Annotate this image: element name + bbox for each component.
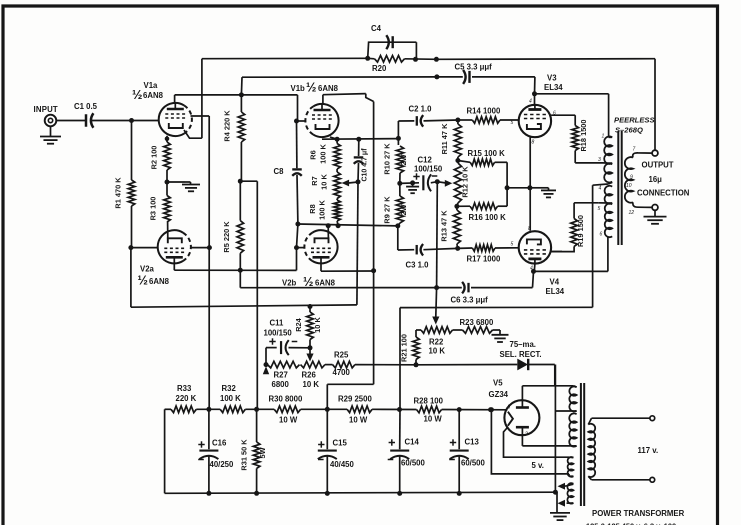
svg-text:1: 1 — [602, 134, 605, 140]
svg-text:6AN8: 6AN8 — [143, 91, 164, 100]
svg-text:5: 5 — [511, 242, 514, 248]
svg-text:9: 9 — [630, 175, 633, 181]
svg-text:4: 4 — [599, 186, 602, 192]
svg-text:4700: 4700 — [333, 368, 351, 377]
svg-text:100/150: 100/150 — [264, 329, 293, 338]
svg-text:6AN8: 6AN8 — [318, 84, 339, 93]
svg-text:R6: R6 — [309, 150, 318, 159]
svg-text:10 K: 10 K — [429, 347, 446, 356]
svg-text:CONNECTION: CONNECTION — [637, 189, 690, 198]
svg-text:R28 100: R28 100 — [414, 397, 444, 406]
svg-text:R15 100 K: R15 100 K — [468, 149, 506, 158]
svg-text:75–ma.: 75–ma. — [510, 340, 536, 349]
svg-text:R1 470 K: R1 470 K — [114, 177, 123, 209]
svg-text:C16: C16 — [212, 439, 227, 448]
svg-text:R7: R7 — [310, 176, 319, 185]
svg-text:5: 5 — [598, 206, 601, 212]
svg-text:10 K: 10 K — [320, 174, 329, 190]
svg-text:R16 100 K: R16 100 K — [469, 213, 507, 222]
svg-text:R8: R8 — [308, 204, 317, 213]
svg-text:R29 2500: R29 2500 — [338, 395, 372, 404]
svg-text:R17 1000: R17 1000 — [467, 255, 501, 264]
svg-text:10 K: 10 K — [313, 317, 322, 333]
svg-text:R20: R20 — [372, 64, 387, 73]
svg-text:½: ½ — [132, 88, 142, 102]
svg-text:R18 1500: R18 1500 — [579, 119, 588, 151]
svg-text:R14 1000: R14 1000 — [467, 107, 501, 116]
svg-text:10 W: 10 W — [279, 416, 298, 425]
svg-text:C13: C13 — [465, 438, 480, 447]
svg-text:C14: C14 — [405, 438, 420, 447]
svg-text:5W: 5W — [258, 447, 267, 458]
svg-text:2W: 2W — [399, 204, 408, 215]
svg-text:V1a: V1a — [144, 81, 159, 90]
svg-text:R31 50 K: R31 50 K — [240, 439, 249, 471]
svg-text:V3: V3 — [547, 74, 557, 83]
svg-text:R10 27 K: R10 27 K — [383, 143, 392, 175]
svg-text:100 K: 100 K — [220, 394, 241, 403]
svg-text:3: 3 — [598, 157, 601, 163]
svg-text:40/450: 40/450 — [330, 460, 355, 469]
svg-text:PEERLESS: PEERLESS — [614, 116, 655, 125]
svg-text:C4: C4 — [371, 24, 382, 33]
svg-text:8: 8 — [532, 140, 535, 146]
svg-text:R9 27 K: R9 27 K — [383, 196, 392, 224]
svg-text:R4 220 K: R4 220 K — [223, 110, 232, 142]
svg-text:½: ½ — [303, 275, 313, 289]
svg-text:8: 8 — [528, 226, 531, 232]
svg-text:2: 2 — [524, 432, 528, 438]
svg-text:R2 100: R2 100 — [150, 146, 159, 170]
svg-text:100 K: 100 K — [319, 143, 328, 163]
svg-text:4: 4 — [530, 266, 533, 272]
svg-text:60/500: 60/500 — [461, 459, 486, 468]
svg-text:R13 47 K: R13 47 K — [440, 210, 449, 242]
svg-text:10 W: 10 W — [349, 416, 368, 425]
svg-text:C5 3.3 μμf: C5 3.3 μμf — [455, 63, 493, 72]
svg-text:10 K: 10 K — [303, 380, 320, 389]
svg-text:6AN8: 6AN8 — [149, 277, 170, 286]
svg-text:125-0-125 450 v. 6.3 v. 1: 125-0-125 450 v. 6.3 v. 100 — [586, 522, 676, 525]
svg-text:R3 100: R3 100 — [149, 197, 158, 221]
svg-text:V2a: V2a — [140, 265, 155, 274]
svg-text:7: 7 — [633, 147, 636, 153]
svg-text:16μ: 16μ — [649, 175, 663, 184]
svg-text:C8: C8 — [274, 167, 285, 176]
svg-text:C11: C11 — [270, 319, 285, 328]
svg-text:EL34: EL34 — [544, 83, 563, 92]
svg-text:100/150: 100/150 — [414, 165, 443, 174]
svg-text:SEL. RECT.: SEL. RECT. — [500, 350, 542, 359]
svg-text:6800: 6800 — [272, 380, 290, 389]
svg-text:R24: R24 — [294, 317, 303, 331]
svg-text:R27: R27 — [274, 371, 288, 380]
svg-text:½: ½ — [138, 274, 148, 288]
svg-text:C12: C12 — [418, 156, 433, 165]
svg-text:10 W: 10 W — [424, 415, 443, 424]
svg-text:C6 3.3 μμf: C6 3.3 μμf — [451, 296, 489, 305]
svg-text:R11 47 K: R11 47 K — [440, 123, 449, 154]
svg-text:C2 1.0: C2 1.0 — [409, 105, 433, 114]
svg-text:½: ½ — [306, 81, 316, 95]
svg-text:C15: C15 — [333, 439, 348, 448]
svg-text:V5: V5 — [493, 379, 503, 388]
svg-text:100 K: 100 K — [318, 199, 327, 219]
svg-text:6: 6 — [600, 232, 603, 238]
svg-text:117 v.: 117 v. — [638, 446, 659, 455]
svg-text:C1 0.5: C1 0.5 — [74, 102, 98, 111]
svg-text:POWER TRANSFORMER: POWER TRANSFORMER — [592, 509, 685, 518]
svg-text:6: 6 — [553, 111, 556, 117]
svg-text:R32: R32 — [222, 384, 237, 393]
svg-text:R21 100: R21 100 — [400, 334, 409, 362]
svg-text:R19 1500: R19 1500 — [576, 215, 585, 247]
svg-text:S–268Q: S–268Q — [615, 126, 643, 135]
svg-text:10: 10 — [626, 183, 632, 189]
svg-text:2W: 2W — [399, 154, 408, 165]
svg-text:60/500: 60/500 — [401, 459, 426, 468]
svg-text:4: 4 — [529, 99, 532, 105]
svg-text:R23 6800: R23 6800 — [460, 318, 494, 327]
svg-text:40/250: 40/250 — [210, 460, 235, 469]
svg-text:EL34: EL34 — [546, 287, 565, 296]
svg-text:R25: R25 — [334, 351, 349, 360]
svg-text:C3 1.0: C3 1.0 — [406, 261, 430, 270]
svg-text:V2b: V2b — [282, 279, 297, 288]
svg-text:R30 8000: R30 8000 — [269, 395, 303, 404]
svg-text:GZ34: GZ34 — [489, 390, 509, 399]
svg-text:5 v.: 5 v. — [532, 461, 544, 470]
svg-text:R5 220 K: R5 220 K — [222, 221, 231, 253]
svg-text:12: 12 — [629, 210, 635, 216]
svg-text:8: 8 — [508, 405, 511, 411]
svg-text:OUTPUT: OUTPUT — [642, 161, 674, 170]
svg-text:220 K: 220 K — [176, 394, 197, 403]
svg-text:V4: V4 — [550, 278, 560, 287]
svg-text:6AN8: 6AN8 — [315, 279, 336, 288]
svg-text:INPUT: INPUT — [34, 105, 58, 114]
svg-text:R22: R22 — [429, 338, 444, 347]
svg-text:R26: R26 — [302, 371, 317, 380]
svg-text:C10 4.7 μf: C10 4.7 μf — [362, 148, 369, 182]
svg-text:5: 5 — [511, 120, 514, 126]
svg-text:V1b: V1b — [291, 84, 306, 93]
svg-text:R33: R33 — [177, 384, 192, 393]
svg-text:R12 10 K: R12 10 K — [461, 166, 470, 198]
